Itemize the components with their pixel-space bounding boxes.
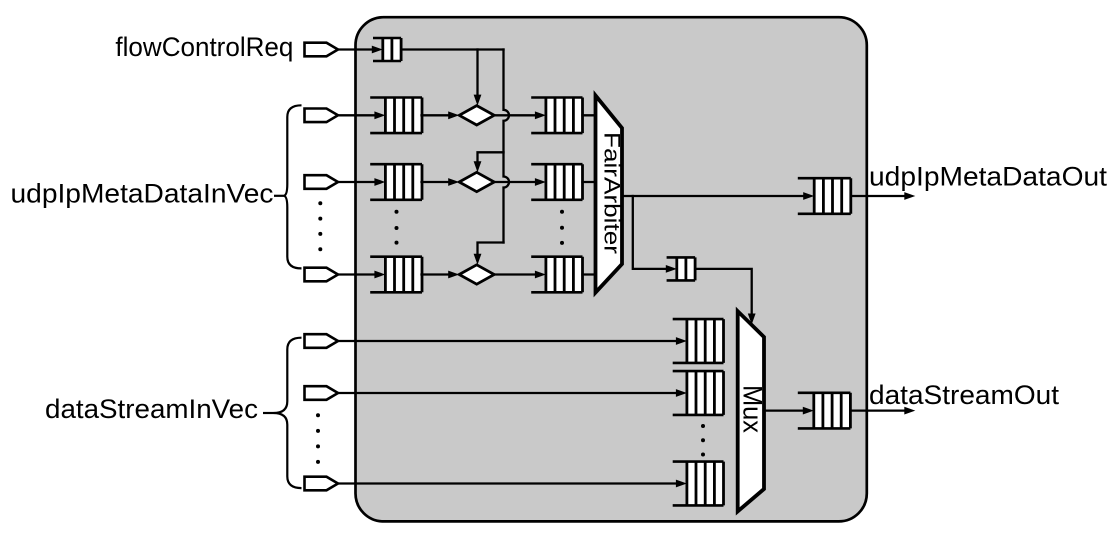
- diamond flow gate n: [459, 265, 494, 284]
- dots dataStream fifos: [701, 424, 705, 457]
- wire arbiter branch to meta fifo: [633, 196, 677, 273]
- port dataStreamIn[0]: [305, 334, 339, 348]
- fifo udpIpMetaDataOut: [798, 178, 851, 214]
- svg-text:udpIpMetaDataInVec: udpIpMetaDataInVec: [11, 179, 274, 209]
- diamond flow gate 1: [459, 172, 494, 191]
- wire drop to diamond 3: [474, 243, 504, 265]
- wire mux to dataStreamOut fifo: [764, 407, 814, 415]
- dots udp mid fifos: [560, 210, 564, 245]
- wire udpIpMetaDataOut out: [851, 192, 915, 200]
- fifo udp mid 1: [531, 164, 582, 200]
- brace udpIpMetaDataInVec group: [274, 105, 302, 268]
- wire diamond 0 to mid fifo: [494, 111, 546, 119]
- dots udp input ports: [318, 201, 322, 251]
- svg-text:FairArbiter: FairArbiter: [600, 132, 625, 254]
- wire drop to diamond 2: [474, 152, 504, 172]
- svg-text:dataStreamInVec: dataStreamInVec: [45, 394, 258, 424]
- module box UdpIpArpEthRxTx: [356, 17, 867, 521]
- mux Mux: [738, 311, 768, 511]
- port dataStreamIn[1]: [305, 386, 339, 400]
- fifo dataStream 1: [673, 371, 724, 415]
- wire dataStream in 0 to fifo: [338, 337, 687, 345]
- wire arbiter to udp out fifo: [622, 192, 814, 200]
- svg-text:flowControlReq: flowControlReq: [115, 32, 293, 62]
- wire drop to diamond 1: [474, 50, 482, 106]
- wire mid fifo 1 to arbiter: [583, 181, 598, 183]
- wire udp in 1 to fifo: [338, 178, 385, 186]
- fifo flowControlReq: [373, 38, 401, 61]
- brace dataStreamInVec group: [263, 338, 302, 488]
- fifo udp mid n: [531, 257, 582, 293]
- svg-text:Mux: Mux: [738, 385, 768, 433]
- wire udp in 0 to fifo: [338, 111, 385, 119]
- svg-text:dataStreamOut: dataStreamOut: [869, 380, 1060, 410]
- wire mid fifo n to arbiter: [583, 273, 598, 275]
- fifo mux select: [667, 257, 696, 280]
- dots udp input fifos: [395, 210, 399, 245]
- fifo udp in n: [370, 257, 422, 293]
- port udpIpMetaDataIn[0]: [305, 109, 339, 123]
- wire fifo to diamond n: [422, 271, 460, 279]
- wire flowControlReq trunk: [402, 48, 503, 50]
- wire meta fifo to mux select: [696, 269, 756, 325]
- wire dataStream in 1 to fifo: [338, 389, 687, 397]
- fifo dataStream 0: [673, 319, 724, 363]
- diamond flow gate 0: [459, 106, 494, 125]
- arbiter FairArbiter: [596, 96, 625, 293]
- wire flow control trunk vertical with hops: [504, 50, 510, 243]
- wire diamond n to mid fifo: [494, 271, 546, 279]
- wire dataStream in n to fifo: [338, 480, 687, 488]
- wire mid fifo 0 to arbiter: [583, 114, 598, 116]
- fifo udp mid 0: [531, 98, 582, 134]
- wire udp in n to fifo: [338, 271, 385, 279]
- port dataStreamIn[n]: [305, 477, 339, 491]
- wire diamond 1 to mid fifo: [494, 178, 546, 186]
- port udpIpMetaDataIn[n]: [305, 268, 339, 282]
- wire fifo to diamond 1: [422, 178, 460, 186]
- wire fifo to diamond 0: [422, 111, 460, 119]
- dots dataStream input ports: [316, 413, 320, 464]
- port flowControlReq: [305, 43, 339, 57]
- wire flowControlReq to fifo: [338, 46, 383, 54]
- port udpIpMetaDataIn[1]: [305, 175, 339, 189]
- fifo udp in 1: [370, 164, 422, 200]
- fifo udp in 0: [370, 98, 422, 134]
- fifo dataStream n: [673, 462, 724, 506]
- wire dataStreamOut out: [851, 407, 916, 415]
- fifo dataStreamOut: [798, 393, 851, 429]
- svg-text:udpIpMetaDataOut: udpIpMetaDataOut: [869, 161, 1108, 191]
